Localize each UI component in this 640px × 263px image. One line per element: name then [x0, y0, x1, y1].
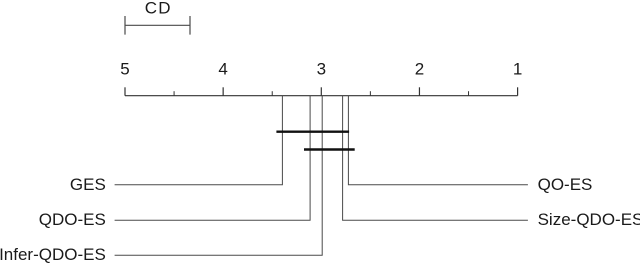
CD scale bar — [125, 16, 190, 35]
QDO-ES connector — [115, 96, 311, 221]
major tick 3 — [320, 87, 322, 95]
svg-text:4: 4 — [218, 59, 227, 78]
major tick 2 — [418, 87, 420, 95]
QO-ES connector — [348, 96, 528, 185]
clique bar 1 (GES..Size-QDO-ES) — [276, 130, 349, 132]
minor tick 3.5 — [271, 91, 273, 96]
axis line — [125, 95, 518, 97]
svg-text:3: 3 — [317, 59, 326, 78]
minor tick 1.5 — [468, 91, 470, 96]
Infer-QDO-ES connector — [115, 96, 323, 256]
Size-QDO-ES connector — [343, 96, 528, 221]
major tick 4 — [222, 87, 224, 95]
major tick 5 — [124, 87, 126, 95]
svg-text:QDO-ES: QDO-ES — [39, 210, 106, 229]
svg-text:1: 1 — [513, 59, 522, 78]
svg-text:2: 2 — [415, 59, 424, 78]
svg-text:5: 5 — [120, 59, 129, 78]
GES connector — [115, 96, 283, 185]
major tick 1 — [517, 87, 519, 95]
svg-text:CD: CD — [145, 0, 172, 17]
svg-text:Size-QDO-ES: Size-QDO-ES — [538, 210, 640, 229]
minor tick 2.5 — [369, 91, 371, 96]
svg-text:Infer-QDO-ES: Infer-QDO-ES — [0, 245, 106, 263]
minor tick 4.5 — [173, 91, 175, 96]
svg-text:GES: GES — [70, 175, 106, 194]
svg-text:QO-ES: QO-ES — [538, 175, 593, 194]
clique bar 2 (QDO-ES..QO-ES) — [304, 148, 355, 150]
